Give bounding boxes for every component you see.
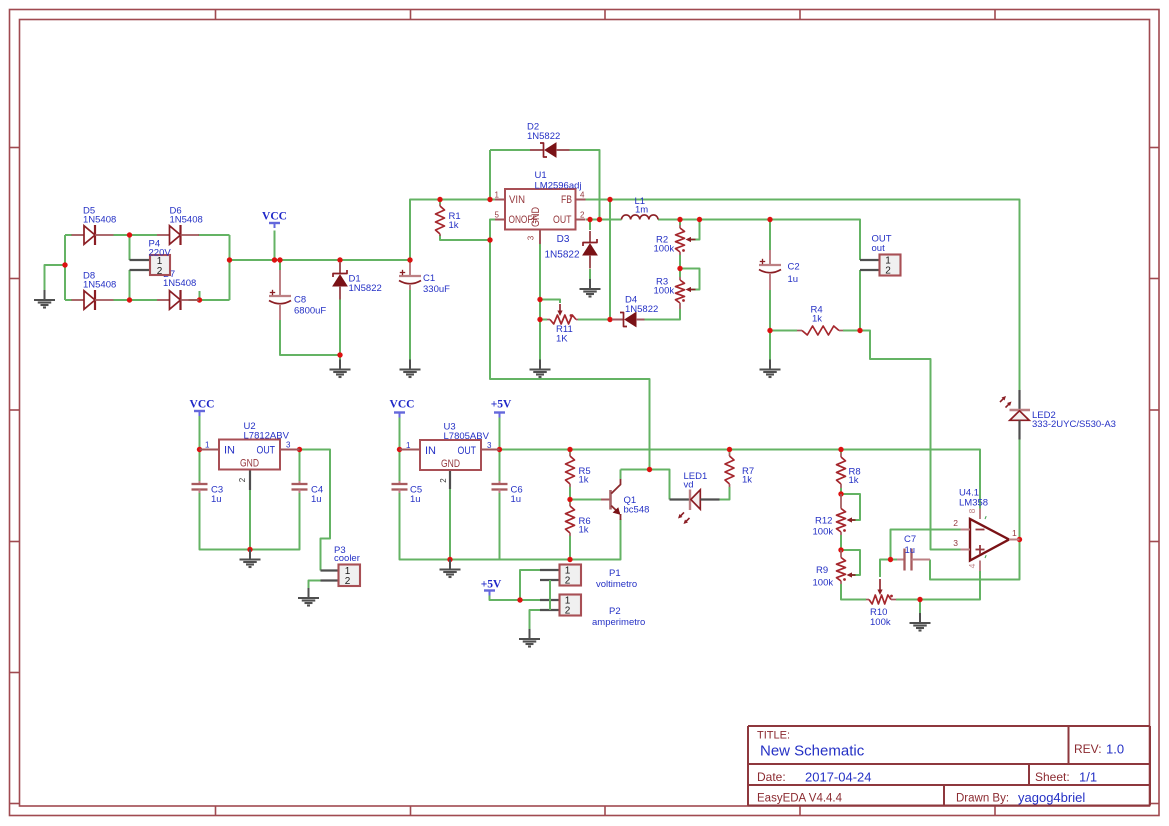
wire P1 pin2 to P2 pin2 [549, 580, 551, 610]
ground P3 [298, 588, 319, 606]
diode D7 [157, 269, 199, 310]
connector P2 [540, 595, 645, 629]
svg-text:8: 8 [967, 508, 977, 513]
power flag +5V [491, 399, 512, 418]
junction R2 top node [677, 217, 682, 222]
potentiometer R11 [547, 304, 578, 345]
wire R8 leads [840, 450, 842, 454]
wire D3 top lead [589, 220, 591, 231]
junction C2-R4 node [767, 328, 772, 333]
svg-text:1k: 1k [742, 475, 752, 486]
svg-text:IN: IN [425, 445, 436, 457]
wire bottom rail U3 cluster [450, 519, 621, 560]
wire R7 top lead [729, 450, 731, 454]
wire C4 branch [299, 450, 301, 482]
svg-text:330uF: 330uF [423, 284, 450, 295]
resistor R5 [566, 453, 591, 487]
svg-text:R9: R9 [816, 565, 828, 576]
ground C1 [400, 360, 421, 378]
junction D7 cathode node [197, 297, 202, 302]
wire U3 gnd pin down [449, 489, 451, 560]
wire C5 branch [399, 450, 401, 482]
diode D8 [72, 271, 117, 311]
junction R8-R12 node [838, 491, 843, 496]
wire R4 left [770, 330, 797, 332]
wire R12 bottom [840, 535, 842, 550]
junction +5V node [497, 447, 502, 452]
svg-text:1: 1 [495, 191, 500, 200]
svg-text:1N5822: 1N5822 [625, 304, 658, 315]
wire D3 bottom to ground [589, 269, 591, 279]
junction R11 wiper node [537, 297, 542, 302]
wire R9 wiper loop [841, 550, 860, 575]
LED LED1 [670, 471, 720, 524]
svg-text:3: 3 [953, 538, 958, 548]
IC U1 LM2596adj [495, 170, 586, 244]
junction D3 node [587, 217, 592, 222]
svg-text:D3: D3 [557, 234, 570, 245]
LED LED2 [1000, 390, 1116, 440]
transistor Q1 [601, 479, 649, 520]
wire bridge top rail segments [65, 234, 72, 236]
wire R12 wiper loop [841, 494, 860, 520]
wire R1 top lead [439, 200, 441, 205]
ground D3 [580, 279, 601, 297]
junction R6 bottom node [567, 557, 572, 562]
resistor R7 [725, 453, 754, 487]
svg-text:LM358: LM358 [959, 498, 988, 509]
svg-text:1K: 1K [556, 334, 568, 345]
wire R4 net to op-amp pin3 [860, 331, 961, 550]
wire C7 left lead joint [891, 559, 898, 561]
svg-text:1u: 1u [905, 545, 916, 556]
wire P3 pin2 to ground [309, 581, 321, 589]
wire D4 to R3 bottom corner [645, 309, 681, 320]
junction U2 OUT node [297, 447, 302, 452]
svg-text:yagog4briel: yagog4briel [1018, 790, 1085, 805]
svg-text:6800uF: 6800uF [294, 306, 326, 317]
wire R11 wiper link [540, 300, 560, 304]
wire P4 pin2 link [129, 270, 131, 300]
svg-text:100k: 100k [654, 286, 675, 297]
wire OUT row after L1 [658, 220, 860, 261]
wire +5V flag P cluster [490, 593, 541, 601]
svg-text:GND: GND [441, 458, 460, 470]
svg-text:IN: IN [224, 445, 235, 457]
wire op-amp pin4 to R10 row [896, 571, 980, 600]
ground C2 [760, 360, 781, 378]
junction R11 left node [537, 317, 542, 322]
wire U2 out to P3 [300, 450, 331, 571]
diode D2 [527, 122, 570, 158]
junction R12-R9 node [838, 547, 843, 552]
svg-text:New Schematic: New Schematic [760, 743, 865, 760]
wire R3 wiper loop [680, 269, 700, 290]
junction R7 top node [727, 447, 732, 452]
svg-text:+5V: +5V [491, 399, 512, 411]
svg-text:VCC: VCC [390, 399, 415, 411]
svg-text:Sheet:: Sheet: [1035, 770, 1070, 784]
junction C1 top node [407, 257, 412, 262]
svg-text:2: 2 [565, 576, 571, 587]
svg-text:1u: 1u [511, 494, 522, 505]
svg-text:4: 4 [967, 563, 977, 568]
connector P1 [540, 565, 637, 591]
junction P1 +5V node [517, 597, 522, 602]
wire R2 wiper loop [690, 220, 700, 240]
svg-text:OUT: OUT [257, 445, 276, 457]
potentiometer R12 [813, 494, 856, 538]
svg-text:cooler: cooler [334, 553, 360, 564]
wire C6 branch [499, 450, 501, 482]
svg-text:C1: C1 [423, 273, 435, 284]
op-amp U4.1 LM358 [953, 488, 1019, 572]
junction D8-D7 node [127, 297, 132, 302]
power flag VCC [390, 399, 415, 418]
junction VCC flag node [272, 257, 277, 262]
ground U2 [240, 550, 261, 568]
junction U2 gnd node [247, 547, 252, 552]
wire C1 branch [409, 260, 411, 263]
title block [748, 726, 1150, 806]
svg-text:OUT: OUT [553, 214, 572, 226]
wire +5V rail long run [495, 450, 980, 509]
wire VCC flag U3 [399, 417, 401, 450]
svg-text:2: 2 [885, 266, 891, 277]
junction R4 right node [857, 328, 862, 333]
ground bridge [34, 290, 55, 308]
wire R5-R6 node and Q1 base [569, 487, 571, 503]
wire bridge left vertical [64, 235, 66, 300]
svg-text:1N5408: 1N5408 [83, 215, 116, 226]
diode D5 [72, 206, 117, 246]
power flag +5V [481, 579, 502, 596]
junction VIN node [487, 197, 492, 202]
wire ONOFF long run [490, 220, 650, 470]
power flag VCC [262, 211, 287, 229]
inductor L1 [622, 196, 659, 220]
junction C8-D1 gnd node [337, 352, 342, 357]
svg-text:100k: 100k [813, 527, 834, 538]
wire C8 branch [279, 260, 281, 270]
svg-text:5: 5 [495, 211, 500, 220]
capacitor C7 [897, 534, 930, 571]
svg-text:1N5408: 1N5408 [163, 278, 196, 289]
svg-text:1: 1 [406, 441, 411, 450]
junction R2 wiper node [697, 217, 702, 222]
junction C2 top node [767, 217, 772, 222]
wire LED2 bottom to op-amp output [1019, 440, 1021, 540]
svg-text:1N5822: 1N5822 [349, 283, 382, 294]
svg-text:1k: 1k [579, 475, 589, 486]
power flag VCC [190, 399, 215, 417]
junction U3 gnd node [447, 557, 452, 562]
connector P3 [321, 545, 361, 587]
junction U2 IN node [197, 447, 202, 452]
svg-text:out: out [872, 243, 886, 254]
svg-text:VCC: VCC [262, 211, 287, 223]
svg-text:FB: FB [561, 194, 572, 206]
wire R2 top lead [679, 220, 681, 226]
resistor R6 [566, 503, 591, 536]
junction FB-R11 node [607, 317, 612, 322]
wire VCC flag U2 [199, 415, 201, 450]
diode D3 [544, 231, 597, 269]
potentiometer R10 [866, 579, 896, 628]
junction R1 top node [437, 197, 442, 202]
svg-text:1u: 1u [211, 494, 222, 505]
junction bridge AC1 node [62, 262, 67, 267]
wire R4 right [843, 330, 860, 332]
svg-text:100k: 100k [654, 244, 675, 255]
wire D1 bottom to ground [339, 299, 341, 360]
svg-text:3: 3 [527, 235, 536, 240]
svg-text:1.0: 1.0 [1106, 742, 1124, 757]
svg-text:L7812ABV: L7812ABV [244, 431, 290, 442]
capacitor C4 [292, 481, 324, 505]
svg-text:4: 4 [580, 191, 585, 200]
svg-text:R12: R12 [815, 516, 832, 527]
svg-text:VIN: VIN [509, 194, 525, 206]
svg-text:2: 2 [345, 576, 351, 587]
svg-text:1k: 1k [579, 525, 589, 536]
potentiometer R9 [813, 550, 856, 589]
potentiometer R2 [654, 225, 696, 255]
svg-text:GND: GND [240, 458, 259, 470]
svg-text:1: 1 [1012, 528, 1017, 538]
svg-text:P1: P1 [609, 568, 621, 579]
svg-text:2: 2 [565, 606, 571, 617]
svg-text:OUT: OUT [458, 445, 477, 457]
diode D6 [157, 206, 203, 246]
wire rail up to VIN [410, 200, 495, 261]
wire R10 wiper from C7 node [880, 560, 891, 578]
svg-text:REV:: REV: [1074, 742, 1102, 756]
wire VCC flag stub top [274, 231, 276, 261]
wire U1 GND pin down [539, 244, 541, 360]
wire P2 pin2 to ground [530, 610, 541, 629]
svg-text:vd: vd [684, 480, 694, 491]
wire bridge right vertical [229, 235, 231, 300]
wire R2-R3 junction [679, 255, 681, 277]
ground R10 [910, 613, 931, 631]
capacitor C2 [759, 250, 800, 290]
junction D2 node on OUT [597, 217, 602, 222]
svg-text:Date:: Date: [757, 770, 786, 784]
svg-text:1N5408: 1N5408 [170, 215, 203, 226]
svg-text:2: 2 [439, 478, 448, 483]
diode D4 [612, 295, 658, 327]
IC U3 L7805ABV [400, 422, 500, 490]
ground P2 [519, 629, 540, 647]
svg-text:3: 3 [487, 441, 492, 450]
wire FB vertical [609, 200, 611, 320]
svg-text:bc548: bc548 [624, 505, 650, 516]
wire +5V flag U3 out [499, 417, 501, 450]
svg-text:C7: C7 [904, 534, 916, 545]
svg-text:VCC: VCC [190, 399, 215, 411]
junction op-amp gnd node [917, 597, 922, 602]
wire OUT row after U1 [586, 219, 622, 221]
wire C2 branch [769, 220, 771, 251]
capacitor C6 [492, 481, 523, 505]
svg-text:1m: 1m [635, 205, 648, 216]
svg-text:C2: C2 [788, 262, 800, 273]
svg-text:2: 2 [953, 518, 958, 528]
svg-text:2: 2 [580, 211, 585, 220]
svg-text:333-2UYC/S530-A3: 333-2UYC/S530-A3 [1032, 419, 1116, 430]
svg-text:100k: 100k [813, 578, 834, 589]
ground U3 [440, 560, 461, 578]
svg-text:1k: 1k [849, 475, 859, 486]
wire bridge left ground stub [45, 265, 66, 290]
wire R6 bottom [569, 536, 571, 560]
svg-text:EasyEDA V4.4.4: EasyEDA V4.4.4 [757, 793, 843, 805]
svg-text:100k: 100k [870, 617, 891, 628]
svg-text:2: 2 [238, 477, 247, 482]
junction C8 top node [277, 257, 282, 262]
junction R2-R3 node [677, 266, 682, 271]
junction D1 top node [337, 257, 342, 262]
wire op-amp pin2 run [891, 530, 961, 560]
wire OUT conn pin2 down [859, 270, 861, 331]
wire R9 to R10 corner [841, 584, 866, 600]
wire U2 gnd pin down [249, 490, 251, 550]
junction R5 top node [567, 447, 572, 452]
svg-text:1k: 1k [449, 220, 459, 231]
svg-text:U1: U1 [535, 170, 547, 181]
junction Q1 collector node [647, 467, 652, 472]
svg-text:1/1: 1/1 [1079, 770, 1097, 785]
svg-text:amperimetro: amperimetro [592, 617, 645, 628]
wire P1 pin1 to +5V net [520, 570, 540, 600]
capacitor C5 [392, 481, 423, 505]
ground U1 pin3 [530, 360, 551, 378]
svg-text:TITLE:: TITLE: [757, 730, 790, 742]
potentiometer R3 [654, 277, 696, 310]
capacitor C3 [192, 481, 224, 505]
svg-text:1: 1 [205, 441, 210, 450]
junction R8 top node [838, 447, 843, 452]
svg-text:L7805ABV: L7805ABV [444, 431, 490, 442]
svg-text:1u: 1u [311, 494, 322, 505]
svg-text:Drawn By:: Drawn By: [956, 793, 1009, 805]
capacitor C8 [269, 270, 326, 320]
junction U3 IN node [397, 447, 402, 452]
svg-text:1N5822: 1N5822 [527, 131, 560, 142]
wire main VCC rail [230, 259, 411, 261]
junction Q1 base node [567, 497, 572, 502]
ground D1-C8 [330, 360, 351, 378]
svg-text:+5V: +5V [481, 579, 502, 591]
wire D2 bypass loop [489, 150, 491, 200]
wire Q1 collector top [620, 470, 622, 480]
junction op-amp output node [1017, 537, 1022, 542]
wire P4 pin1 link [129, 235, 131, 260]
svg-text:1N5408: 1N5408 [83, 280, 116, 291]
resistor R8 [837, 453, 861, 488]
junction R1 bottom node [487, 237, 492, 242]
junction FB node [607, 197, 612, 202]
svg-text:3: 3 [286, 441, 291, 450]
wire FB long run to LED2 [586, 200, 1020, 391]
svg-text:220V: 220V [149, 248, 172, 259]
wire stub above D7 cathode junction [199, 291, 201, 300]
wire R5 top lead [569, 450, 571, 454]
svg-text:1u: 1u [788, 274, 799, 285]
capacitor C1 [399, 263, 450, 295]
wire C3 branch [199, 450, 201, 482]
svg-text:C8: C8 [294, 295, 306, 306]
svg-text:P2: P2 [609, 606, 621, 617]
svg-text:LM2596adj: LM2596adj [535, 181, 582, 192]
svg-text:2017-04-24: 2017-04-24 [805, 770, 872, 785]
junction bridge DC+ node [227, 257, 232, 262]
svg-text:1N5822: 1N5822 [544, 250, 579, 261]
svg-text:2: 2 [157, 266, 163, 277]
junction C7-R10 wiper node [888, 557, 893, 562]
wire op-amp feedback via C7 [930, 540, 1020, 580]
connector OUT [860, 234, 901, 277]
svg-text:1u: 1u [410, 494, 421, 505]
diode D1 [333, 262, 382, 300]
resistor R4 [797, 305, 843, 336]
svg-text:voltimetro: voltimetro [596, 579, 637, 590]
resistor R1 [436, 204, 461, 236]
wire R1 bottom to ONOFF net [440, 235, 490, 240]
wire LED1 right to R7 [720, 487, 730, 500]
wire collector node row to LED1 [621, 470, 670, 500]
wire bridge bottom rail segments [65, 299, 72, 301]
wire R11 row [540, 319, 547, 321]
svg-text:1k: 1k [812, 314, 822, 325]
svg-text:GND: GND [530, 207, 542, 227]
wire R10 ground branch [919, 600, 921, 614]
junction D5-D6 anode node [127, 232, 132, 237]
connector P4 [130, 239, 172, 278]
IC U2 L7812ABV [200, 421, 300, 490]
